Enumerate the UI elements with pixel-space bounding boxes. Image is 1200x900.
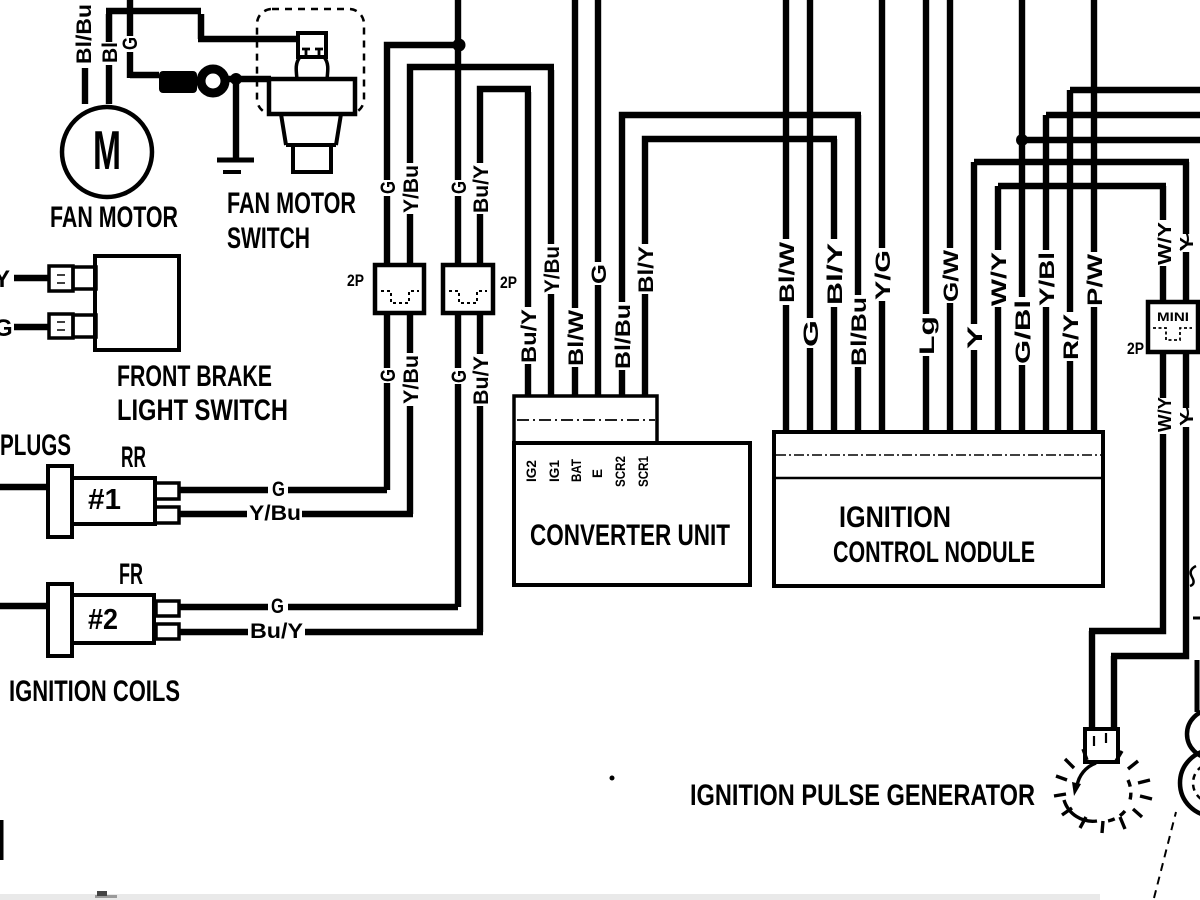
bottom scan band — [0, 894, 1100, 900]
wire G to ICM — [807, 0, 813, 432]
wire Bl/W to converter — [572, 0, 578, 397]
right edge tick — [1193, 617, 1200, 620]
svg-text:LIGHT SWITCH: LIGHT SWITCH — [117, 394, 288, 427]
brake switch terminal 2 — [49, 314, 73, 338]
svg-text:W/Y: W/Y — [988, 252, 1011, 306]
wire W/Y above MINI — [1160, 186, 1166, 302]
coil #1 terminal top — [155, 483, 179, 499]
svg-text:G: G — [377, 369, 400, 382]
wire Bl/Bu (fan motor) — [82, 68, 88, 104]
svg-text:M: M — [93, 119, 121, 181]
wire to fan motor switch — [225, 76, 271, 82]
wire G to converter — [595, 0, 601, 397]
svg-text:IGNITION PULSE GENERATOR: IGNITION PULSE GENERATOR — [690, 779, 1035, 812]
2P connector #1 — [375, 265, 424, 313]
svg-text:G: G — [0, 315, 13, 342]
coil #2 terminal bottom — [156, 624, 179, 639]
fan motor switch dashed enclosure — [257, 9, 364, 114]
svg-text:Bu/Y: Bu/Y — [250, 620, 303, 643]
wire Bl/Bu converter to ICM — [622, 115, 861, 432]
ignition coil #1 body — [72, 478, 155, 524]
wire Bu/Y to converter — [525, 92, 531, 397]
svg-text:Y/Bu: Y/Bu — [400, 165, 423, 213]
svg-text:FR: FR — [119, 558, 143, 591]
svg-text:G: G — [119, 37, 142, 50]
right edge rotor small circle — [1187, 710, 1200, 758]
svg-text:R/Y: R/Y — [1060, 314, 1083, 360]
speck — [610, 776, 615, 781]
svg-text:Y/G: Y/G — [872, 250, 895, 300]
ignition coil #2 flange — [48, 584, 72, 656]
svg-text:Y/Bu: Y/Bu — [249, 502, 301, 525]
svg-text:SCR2: SCR2 — [613, 456, 628, 487]
svg-text:Bu/Y: Bu/Y — [470, 356, 493, 405]
svg-text:2P: 2P — [500, 273, 517, 292]
wire G from top edge — [127, 0, 133, 36]
wire W/Y below MINI — [1089, 352, 1163, 729]
converter unit box U1 — [514, 443, 750, 585]
ignition coil #2 body — [72, 595, 154, 643]
junction dot G — [453, 39, 466, 52]
2P connector #2 — [443, 265, 493, 313]
svg-text:G: G — [271, 595, 284, 618]
spark plug wire #1 — [0, 484, 48, 490]
ignition control module box U2 — [774, 432, 1103, 586]
fan motor switch connector box — [298, 33, 326, 57]
wire Y to brake switch — [14, 275, 49, 281]
junction dot G/Bl — [1016, 134, 1028, 146]
wire Bu/Y vertical (2P#2 right) — [480, 89, 531, 163]
svg-text:Bu/Y: Bu/Y — [518, 309, 541, 363]
svg-text:MINI: MINI — [1157, 310, 1189, 324]
wire G to brake switch — [14, 324, 49, 330]
leader line — [1154, 812, 1176, 898]
svg-text:SCR1: SCR1 — [636, 456, 651, 487]
wire Y above MINI — [1183, 162, 1189, 302]
wire W/Y to ICM, link to MINI left — [998, 186, 1166, 432]
wire G from coil #2 — [179, 604, 458, 610]
right edge wire stub — [1195, 660, 1200, 712]
junction dot — [230, 73, 242, 85]
wire Y/Bl to ICM — [1046, 115, 1200, 432]
ignition pulse generator rotor — [1054, 749, 1152, 833]
ground symbol — [217, 158, 254, 163]
coil #2 terminal top — [156, 601, 179, 616]
left edge fragment — [0, 820, 4, 860]
svg-text:G: G — [448, 181, 471, 194]
svg-text:#2: #2 — [88, 604, 118, 636]
svg-text:Bl/Y: Bl/Y — [824, 243, 847, 305]
svg-text:Y: Y — [0, 266, 10, 293]
svg-text:Y/Bu: Y/Bu — [541, 246, 564, 293]
wire Y below MINI — [1111, 352, 1186, 729]
svg-text:Y: Y — [964, 326, 987, 349]
wire G from coil #1 — [179, 487, 387, 493]
wire Y/G to ICM — [879, 0, 885, 432]
svg-text:Bl/Bu: Bl/Bu — [612, 304, 635, 369]
wire Y/Bu vertical (2P#1 right) — [410, 67, 554, 163]
ground drop wire — [233, 79, 239, 158]
svg-text:Bl/Bu: Bl/Bu — [848, 297, 871, 366]
right edge rotor large circle — [1180, 750, 1200, 816]
fan motor switch funnel — [296, 57, 328, 79]
wire Bl/Y converter to ICM — [645, 139, 837, 432]
wire Lg to ICM — [923, 0, 929, 432]
svg-text:FAN MOTOR: FAN MOTOR — [227, 187, 356, 220]
svg-text:P/W: P/W — [1084, 254, 1107, 306]
svg-text:G: G — [377, 181, 400, 194]
wire G vertical (2P#2 left) — [455, 0, 461, 180]
wire Bu/Y from coil #2 — [179, 629, 483, 635]
svg-text:CONVERTER UNIT: CONVERTER UNIT — [530, 519, 730, 552]
svg-text:Bl/Bu: Bl/Bu — [73, 4, 96, 64]
wire R/Y to ICM — [1070, 90, 1200, 432]
svg-text:IGNITION: IGNITION — [839, 501, 951, 534]
svg-text:CONTROL NODULE: CONTROL NODULE — [833, 536, 1035, 569]
svg-text:G: G — [272, 478, 285, 501]
svg-text:G: G — [448, 370, 471, 383]
svg-text:G: G — [800, 320, 823, 347]
svg-text:W/Y: W/Y — [1155, 397, 1175, 432]
svg-text:#1: #1 — [88, 484, 121, 516]
svg-text:SWITCH: SWITCH — [227, 222, 310, 255]
MINI 2P connector — [1148, 302, 1198, 352]
svg-text:IG1: IG1 — [547, 460, 562, 482]
svg-text:IGNITION COILS: IGNITION COILS — [9, 675, 180, 708]
wire G/Bl to ICM — [1022, 0, 1200, 432]
wire Bl (fan motor), upper run to fan motor switch — [106, 11, 298, 42]
right edge mark — [1190, 566, 1196, 586]
pulse generator connector — [1085, 729, 1118, 762]
svg-text:Bu/Y: Bu/Y — [470, 165, 493, 213]
front brake light switch body SW2 — [95, 256, 179, 350]
wire Y to ICM, link to MINI right — [974, 162, 1189, 432]
wire Bl/W to ICM — [783, 0, 789, 432]
fan motor switch threaded base — [293, 145, 331, 172]
wire Y/Bu from coil #1 — [179, 511, 413, 517]
wire G vertical (2P#1 left) — [387, 45, 461, 180]
fan motor M1 circle — [62, 107, 152, 197]
svg-text:RR: RR — [121, 441, 146, 474]
svg-text:FAN MOTOR: FAN MOTOR — [50, 201, 178, 234]
svg-text:PLUGS: PLUGS — [0, 429, 71, 462]
wire G/W to ICM — [947, 0, 953, 432]
svg-text:Lg: Lg — [916, 316, 939, 355]
svg-text:2P: 2P — [1127, 339, 1144, 358]
svg-text:Bl/Y: Bl/Y — [635, 246, 658, 293]
svg-text:FRONT BRAKE: FRONT BRAKE — [117, 360, 272, 393]
converter connector strip — [514, 396, 657, 443]
svg-text:E: E — [590, 469, 605, 478]
svg-text:G/W: G/W — [940, 250, 963, 302]
fan motor switch connector pins — [302, 48, 323, 58]
svg-text:G/Bl: G/Bl — [1012, 300, 1035, 364]
svg-text:2P: 2P — [347, 271, 364, 290]
rotor arrowhead — [1072, 782, 1081, 796]
svg-text:Y/Bl: Y/Bl — [1036, 252, 1059, 306]
ignition coil #1 flange — [48, 466, 72, 537]
wire P/W to ICM — [1091, 0, 1097, 432]
spark plug wire #2 — [0, 603, 48, 609]
svg-text:BAT: BAT — [569, 458, 584, 482]
wire Y/Bu to converter — [548, 70, 554, 397]
coil #1 terminal bottom — [155, 507, 179, 523]
bullet connector — [159, 71, 197, 93]
svg-text:W/Y: W/Y — [1155, 222, 1175, 265]
brake switch terminal 1 — [49, 266, 73, 291]
svg-text:G: G — [588, 264, 611, 284]
svg-text:Y/Bu: Y/Bu — [400, 355, 423, 404]
svg-text:IG2: IG2 — [524, 460, 539, 482]
fan motor switch body SW1 — [269, 79, 355, 114]
svg-text:Bl/W: Bl/W — [565, 310, 588, 366]
svg-text:Bl/W: Bl/W — [776, 242, 799, 303]
fan motor switch lower taper — [281, 114, 341, 145]
